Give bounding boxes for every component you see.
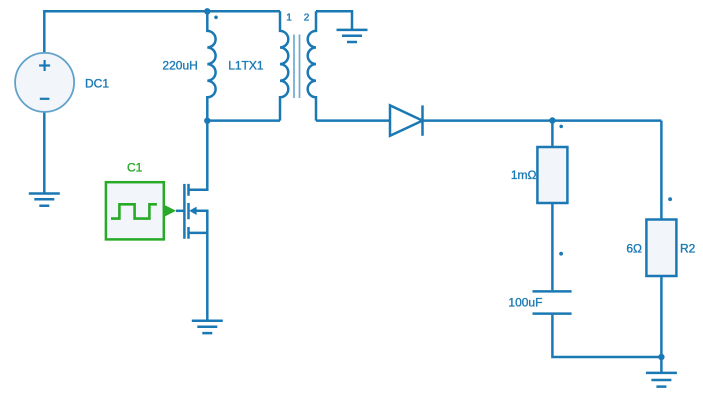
svg-text:100uF: 100uF xyxy=(508,295,542,309)
svg-text:R2: R2 xyxy=(680,242,696,256)
svg-text:220uH: 220uH xyxy=(162,59,197,73)
svg-text:1mΩ: 1mΩ xyxy=(511,168,537,182)
svg-text:1: 1 xyxy=(286,12,292,23)
svg-text:2: 2 xyxy=(304,12,310,23)
svg-text:6Ω: 6Ω xyxy=(626,242,642,256)
svg-text:C1: C1 xyxy=(127,160,143,174)
svg-text:L1TX1: L1TX1 xyxy=(228,59,264,73)
svg-text:DC1: DC1 xyxy=(85,76,109,90)
